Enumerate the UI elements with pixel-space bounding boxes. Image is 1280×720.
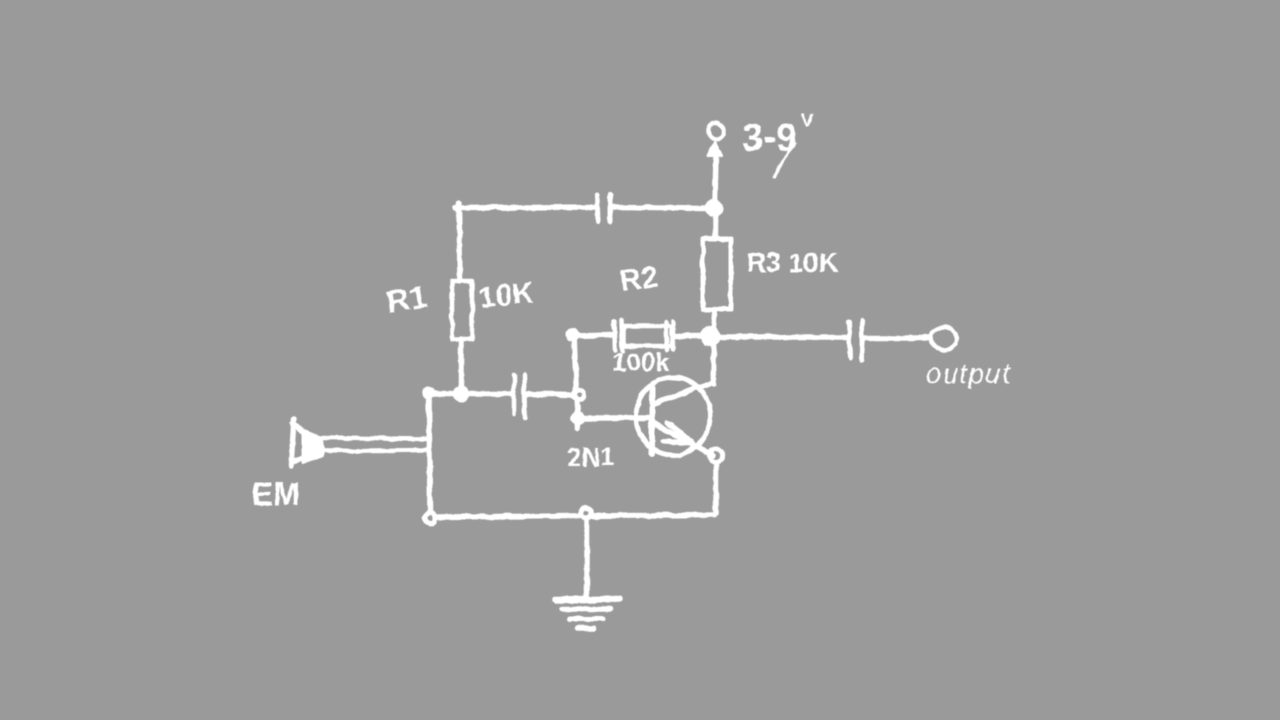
svg-text:100k: 100k (612, 347, 670, 377)
svg-text:R1: R1 (384, 279, 430, 320)
svg-text:EM: EM (252, 476, 300, 512)
svg-text:R2: R2 (618, 261, 660, 298)
svg-text:10K: 10K (477, 276, 536, 315)
svg-text:output: output (926, 358, 1011, 389)
svg-text:V: V (801, 111, 814, 132)
svg-text:R3 10K: R3 10K (746, 247, 838, 278)
svg-text:2N1: 2N1 (567, 442, 615, 472)
